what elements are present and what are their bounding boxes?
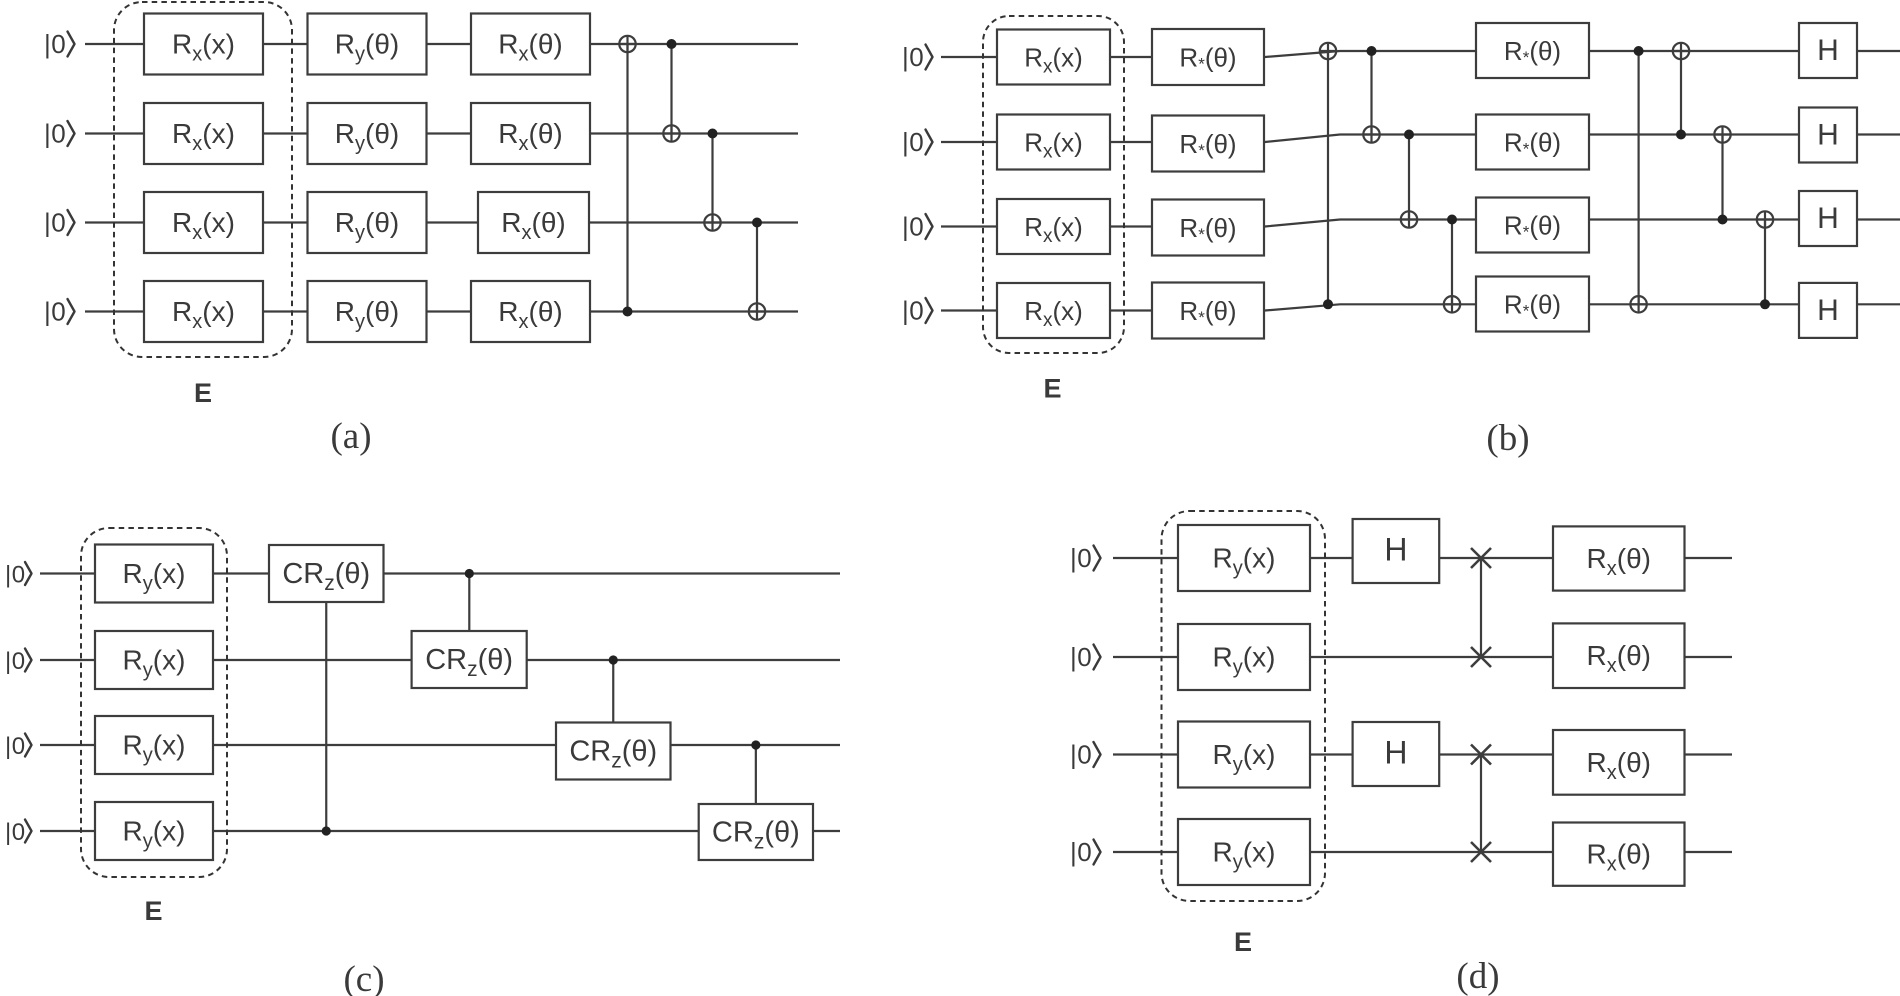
CNOT control q3 second (b)	[1718, 215, 1728, 225]
svg-text:E: E	[1043, 374, 1061, 404]
gate Rx(x) q3 (a)	[144, 192, 263, 253]
svg-text:|0: |0	[902, 296, 924, 326]
qubit label |0> q3 (d)	[1070, 740, 1101, 770]
gate CRz(theta) q3 (c)	[556, 723, 671, 780]
wire CRz control link q2-q3 (c)	[612, 660, 614, 751]
gate R*(theta) second q3 (b)	[1476, 198, 1589, 253]
CNOT target q1 first (b)	[1320, 43, 1336, 59]
gate CRz(theta) q1 (c)	[269, 545, 384, 602]
wire q2 (a)	[85, 132, 798, 134]
svg-text:H: H	[1817, 119, 1839, 152]
qubit label |0> q1 (c)	[5, 562, 32, 589]
gate Rx(x) q1 (a)	[144, 14, 263, 75]
svg-text:|0: |0	[44, 29, 66, 59]
gate Ry(x) q2 (c)	[95, 631, 213, 689]
wire q4 (a)	[85, 310, 798, 312]
wire CNOT link q3-q4 (a)	[756, 223, 758, 312]
SWAP cross q3 (d)	[1471, 745, 1491, 765]
qubit label |0> q3 (c)	[5, 733, 32, 760]
gate H q4 (b)	[1799, 283, 1857, 338]
CNOT target q3 second (b)	[1757, 211, 1773, 227]
qubit label |0> q4 (d)	[1070, 837, 1101, 867]
svg-text:H: H	[1817, 202, 1839, 235]
gate H q3 (d)	[1353, 722, 1440, 786]
qubit label |0> q4 (b)	[902, 296, 933, 326]
gate Ry(theta) q1 (a)	[308, 14, 427, 75]
CNOT control q2 first (b)	[1404, 130, 1414, 140]
encoder block E dashed boundary (d)	[1162, 511, 1326, 901]
gate Ry(x) q4 (d)	[1178, 819, 1310, 885]
gate Rx(theta) q4 (a)	[471, 281, 590, 342]
svg-text:|0: |0	[44, 119, 66, 149]
gate Ry(x) q3 (d)	[1178, 722, 1310, 788]
gate H q1 (d)	[1353, 519, 1440, 583]
gate CRz(theta) q2 (c)	[412, 631, 527, 688]
gate Rx(x) q4 (b)	[997, 283, 1110, 338]
wire q4 (b)	[941, 304, 1900, 310]
CNOT control q3 first (b)	[1447, 215, 1457, 225]
gate Rx(x) q2 (b)	[997, 115, 1110, 170]
svg-text:|0: |0	[5, 562, 26, 589]
qubit label |0> q2 (b)	[902, 127, 933, 157]
qubit label |0> q1 (d)	[1070, 543, 1101, 573]
encoder block E dashed boundary (a)	[114, 2, 292, 357]
CNOT target q1 second (b)	[1673, 43, 1689, 59]
svg-text:|0: |0	[44, 297, 66, 327]
svg-text:|0: |0	[902, 212, 924, 242]
wire CNOT link q2-q3 first (b)	[1408, 135, 1410, 220]
svg-text:R*​(θ): R*​(θ)	[1179, 43, 1236, 74]
CNOT target q3 first (b)	[1401, 211, 1417, 227]
wire CNOT link q4-q3 second (b)	[1764, 220, 1766, 305]
wire CNOT link q1-q2 (a)	[670, 44, 672, 134]
wire CNOT link q3-q4 first (b)	[1451, 220, 1453, 305]
SWAP cross q1 (d)	[1471, 548, 1491, 568]
gate R*(theta) second q2 (b)	[1476, 115, 1589, 170]
CNOT target q4 second (b)	[1630, 296, 1646, 312]
gate H q1 (b)	[1799, 23, 1857, 78]
CNOT target q1 (a)	[619, 36, 635, 52]
svg-text:|0: |0	[1070, 543, 1092, 573]
gate Rx(x) q4 (a)	[144, 281, 263, 342]
gate R*(theta) first q2 (b)	[1152, 116, 1264, 172]
gate R*(theta) first q3 (b)	[1152, 200, 1264, 256]
svg-text:|0: |0	[902, 127, 924, 157]
gate Ry(x) q1 (d)	[1178, 525, 1310, 591]
svg-text:Rx​(x): Rx​(x)	[1024, 128, 1083, 163]
svg-text:|0: |0	[5, 733, 26, 760]
svg-text:R*​(θ): R*​(θ)	[1179, 296, 1236, 327]
svg-text:Rx​(x): Rx​(x)	[1024, 296, 1083, 331]
qubit label |0> q3 (b)	[902, 212, 933, 242]
gate Rx(x) q2 (a)	[144, 103, 263, 164]
gate Ry(x) q3 (c)	[95, 716, 213, 774]
wire CNOT link q4-q1 first (b)	[1327, 52, 1329, 304]
qubit label |0> q4 (c)	[5, 819, 32, 846]
gate R*(theta) first q4 (b)	[1152, 283, 1264, 339]
svg-text:H: H	[1817, 34, 1839, 67]
wire SWAP link q3-q4 (d)	[1480, 755, 1482, 853]
wire q4 (d)	[1113, 851, 1732, 853]
CNOT control q2 (a)	[708, 129, 718, 139]
gate R*(theta) second q1 (b)	[1476, 23, 1589, 78]
svg-text:R*​(θ): R*​(θ)	[1504, 128, 1561, 159]
gate H q3 (b)	[1799, 191, 1857, 246]
CNOT control q4 first (b)	[1323, 299, 1333, 309]
wire SWAP link q1-q2 (d)	[1480, 558, 1482, 657]
qubit label |0> q2 (a)	[44, 119, 75, 149]
CNOT target q3 (a)	[704, 214, 720, 230]
svg-text:|0: |0	[1070, 642, 1092, 672]
CRz control q1 (c)	[465, 569, 474, 578]
gate H q2 (b)	[1799, 108, 1857, 163]
CNOT target q2 second (b)	[1714, 126, 1730, 142]
svg-text:H: H	[1384, 532, 1407, 568]
wire CNOT link q1-q4 second (b)	[1637, 51, 1639, 304]
qubit label |0> q2 (d)	[1070, 642, 1101, 672]
wire CNOT link q3-q2 second (b)	[1721, 135, 1723, 220]
gate Rx(theta) q1 (d)	[1553, 526, 1685, 590]
svg-text:R*​(θ): R*​(θ)	[1179, 129, 1236, 160]
gate Rx(theta) q3 (a)	[478, 192, 589, 253]
svg-text:H: H	[1817, 294, 1839, 327]
wire CRz control link q1-q2 (c)	[468, 574, 470, 661]
svg-text:Rx​(x): Rx​(x)	[1024, 43, 1083, 78]
wire q1 (a)	[85, 43, 798, 45]
CRz control q2 (c)	[609, 655, 618, 664]
svg-text:|0: |0	[5, 648, 26, 675]
wire q3 (b)	[941, 220, 1900, 227]
CNOT control q4 (a)	[623, 307, 633, 317]
wire CNOT link q2-q3 (a)	[711, 134, 713, 223]
gate CRz(theta) q4 (c)	[699, 804, 813, 860]
gate Ry(theta) q4 (a)	[308, 281, 427, 342]
CNOT target q4 (a)	[749, 303, 765, 319]
CNOT control q1 second (b)	[1634, 46, 1644, 56]
qubit label |0> q2 (c)	[5, 648, 32, 675]
CNOT control q1 first (b)	[1367, 46, 1377, 56]
wire q3 (a)	[85, 221, 798, 223]
gate Rx(theta) q4 (d)	[1553, 823, 1685, 886]
CNOT control q1 (a)	[667, 39, 677, 49]
svg-text:H: H	[1384, 735, 1407, 771]
gate Ry(x) q4 (c)	[95, 802, 213, 860]
svg-text:R*​(θ): R*​(θ)	[1504, 211, 1561, 242]
svg-text:E: E	[194, 378, 212, 408]
gate R*(theta) first q1 (b)	[1152, 29, 1264, 85]
gate Ry(x) q1 (c)	[95, 545, 213, 603]
qubit label |0> q1 (b)	[902, 42, 933, 72]
wire CNOT link q4-q1 (a)	[626, 44, 628, 312]
wire CRz control link q4-q1 (c)	[325, 574, 327, 832]
gate R*(theta) second q4 (b)	[1476, 277, 1589, 332]
svg-text:R*​(θ): R*​(θ)	[1504, 290, 1561, 321]
wire q2 (c)	[40, 659, 840, 661]
encoder block E dashed boundary (c)	[81, 528, 227, 877]
svg-text:(d): (d)	[1456, 956, 1499, 996]
svg-text:R*​(θ): R*​(θ)	[1179, 213, 1236, 244]
CNOT target q2 (a)	[663, 125, 679, 141]
svg-text:E: E	[144, 896, 162, 926]
svg-text:(c): (c)	[343, 959, 384, 996]
gate Ry(theta) q3 (a)	[308, 192, 427, 253]
wire q3 (c)	[40, 744, 840, 746]
svg-text:|0: |0	[1070, 740, 1092, 770]
CNOT control q4 second (b)	[1760, 299, 1770, 309]
SWAP cross q2 (d)	[1471, 647, 1491, 667]
SWAP cross q4 (d)	[1471, 842, 1491, 862]
CRz control q4 (c)	[322, 826, 331, 835]
gate Rx(theta) q1 (a)	[471, 14, 590, 75]
wire q3 (d)	[1113, 753, 1732, 755]
wire CRz control link q3-q4 (c)	[755, 745, 757, 833]
gate Ry(x) q2 (d)	[1178, 624, 1310, 690]
wire CNOT link q2-q1 second (b)	[1680, 51, 1682, 135]
CRz control q3 (c)	[751, 740, 760, 749]
CNOT control q3 (a)	[752, 218, 762, 228]
wire q2 (b)	[941, 135, 1900, 143]
svg-text:|0: |0	[902, 42, 924, 72]
svg-text:Rx​(x): Rx​(x)	[1024, 212, 1083, 247]
wire CNOT link q1-q2 first (b)	[1370, 51, 1372, 135]
CNOT control q2 second (b)	[1676, 130, 1686, 140]
svg-text:(b): (b)	[1486, 418, 1529, 459]
wire q1 (b)	[941, 51, 1900, 57]
gate Rx(theta) q3 (d)	[1553, 730, 1685, 795]
gate Rx(theta) q2 (a)	[471, 103, 590, 164]
CNOT target q4 first (b)	[1444, 296, 1460, 312]
CNOT target q2 first (b)	[1363, 126, 1379, 142]
svg-text:(a): (a)	[330, 416, 371, 457]
gate Ry(theta) q2 (a)	[308, 103, 427, 164]
wire q1 (c)	[40, 572, 840, 574]
encoder block E dashed boundary (b)	[983, 16, 1124, 353]
wire q1 (d)	[1113, 557, 1732, 559]
svg-text:E: E	[1234, 927, 1252, 957]
gate Rx(x) q1 (b)	[997, 30, 1110, 85]
wire q2 (d)	[1113, 656, 1732, 658]
qubit label |0> q3 (a)	[44, 208, 75, 238]
wire q4 (c)	[40, 830, 840, 832]
svg-text:R*​(θ): R*​(θ)	[1504, 36, 1561, 67]
qubit label |0> q4 (a)	[44, 297, 75, 327]
svg-text:|0: |0	[5, 819, 26, 846]
svg-text:|0: |0	[44, 208, 66, 238]
gate Rx(x) q3 (b)	[997, 199, 1110, 254]
svg-text:|0: |0	[1070, 837, 1092, 867]
gate Rx(theta) q2 (d)	[1553, 623, 1685, 688]
qubit label |0> q1 (a)	[44, 29, 75, 59]
